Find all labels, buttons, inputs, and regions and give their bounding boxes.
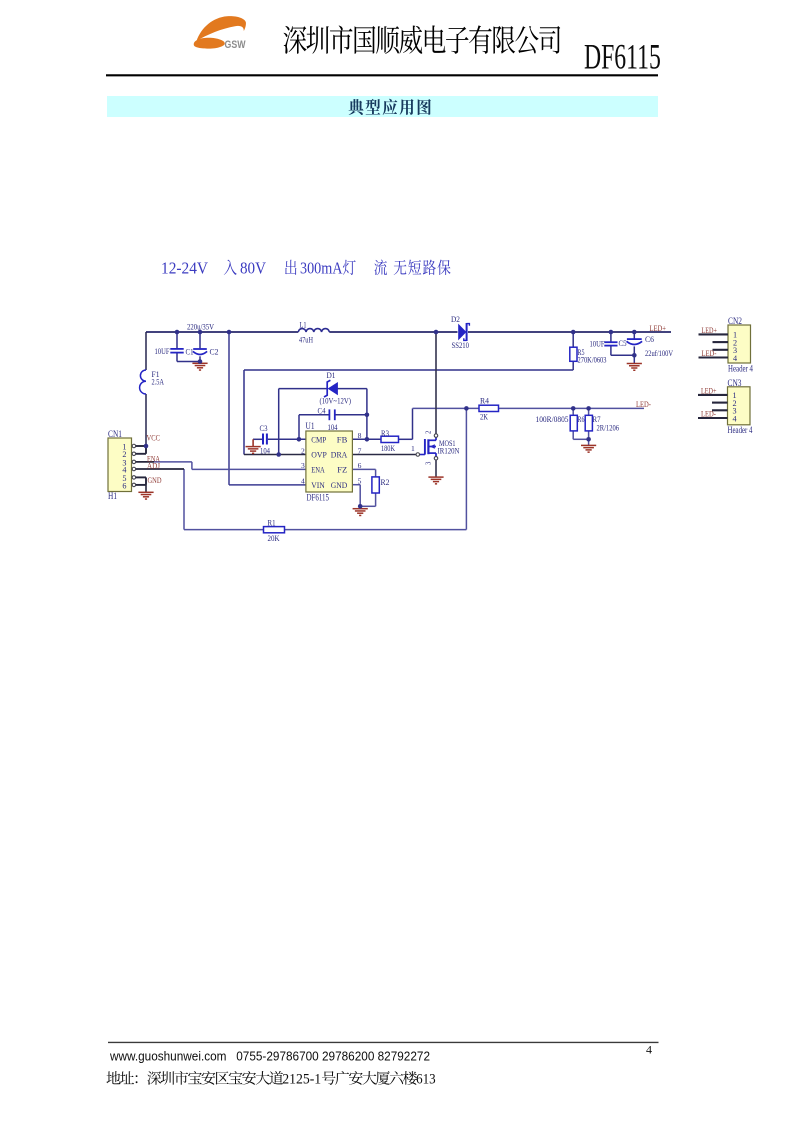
svg-text:OVP: OVP [311,450,327,460]
svg-text:C1: C1 [186,346,194,356]
svg-text:180K: 180K [381,443,396,453]
svg-text:FB: FB [337,434,348,444]
svg-text:ENA: ENA [311,465,325,475]
svg-text:Header 4: Header 4 [728,363,753,373]
svg-text:D2: D2 [451,314,460,324]
svg-text:LED+: LED+ [650,323,667,333]
svg-text:1: 1 [411,444,415,453]
svg-text:LED-: LED- [636,399,651,409]
svg-text:(10V~12V): (10V~12V) [320,395,352,405]
svg-text:3: 3 [426,461,433,465]
svg-text:VIN: VIN [311,480,325,490]
svg-text:47uH: 47uH [299,334,313,344]
svg-text:R1: R1 [268,517,276,527]
svg-text:R2: R2 [381,477,390,487]
svg-text:300mA: 300mA [300,259,343,278]
svg-text:220u/35V: 220u/35V [187,321,215,331]
svg-text:270K/0603: 270K/0603 [578,354,607,364]
svg-text:FZ: FZ [337,465,347,475]
svg-text:R6: R6 [578,414,585,424]
svg-text:20K: 20K [268,533,281,543]
svg-text:4: 4 [646,1043,652,1057]
svg-text:GND: GND [331,480,348,490]
svg-text:H1: H1 [108,491,117,501]
svg-text:10UF: 10UF [155,346,170,356]
svg-text:DF6115: DF6115 [584,37,661,77]
svg-text:VCC: VCC [147,432,161,442]
svg-text:LED-: LED- [702,348,717,358]
svg-text:5: 5 [358,477,362,486]
svg-text:2K: 2K [480,411,489,421]
svg-text:CMP: CMP [311,434,326,444]
svg-text:2R/1206: 2R/1206 [597,422,620,432]
svg-text:10UF: 10UF [590,338,605,348]
svg-text:LED+: LED+ [701,385,717,395]
svg-text:4: 4 [733,354,737,363]
svg-text:6: 6 [358,461,362,470]
svg-text:C5: C5 [619,338,627,348]
svg-text:SS210: SS210 [452,340,470,350]
svg-text:Header 4: Header 4 [728,425,753,435]
svg-text:CN3: CN3 [728,378,742,388]
svg-text:U1: U1 [306,421,315,431]
svg-text:4: 4 [301,477,305,486]
svg-text:CN2: CN2 [728,316,742,326]
svg-text:GSW: GSW [225,39,246,51]
svg-text:R3: R3 [381,428,389,438]
svg-text:IR120N: IR120N [438,445,461,455]
svg-text:C3: C3 [260,423,268,433]
svg-text:2: 2 [301,446,305,455]
svg-text:C4: C4 [318,405,327,415]
svg-text:12-24V: 12-24V [161,259,209,278]
svg-text:2.5A: 2.5A [152,376,165,386]
svg-text:2: 2 [426,430,433,434]
svg-text:7: 7 [358,446,362,455]
svg-text:C2: C2 [210,346,219,356]
svg-text:LED+: LED+ [702,325,718,335]
svg-text:ADJ: ADJ [147,461,161,471]
svg-text:6: 6 [122,481,126,490]
svg-text:4: 4 [733,414,737,423]
svg-text:CN1: CN1 [108,429,122,439]
svg-text:2125-1: 2125-1 [282,1072,321,1088]
svg-text:3: 3 [301,461,305,470]
svg-text:C6: C6 [645,334,655,344]
svg-text:104: 104 [260,445,271,455]
svg-text:R4: R4 [480,395,490,405]
svg-text:LED-: LED- [701,408,716,418]
svg-text:104: 104 [328,422,339,432]
svg-text:613: 613 [416,1072,436,1088]
svg-text:DRA: DRA [331,450,348,460]
svg-text:DF6115: DF6115 [307,493,330,503]
svg-text:100R/0805: 100R/0805 [536,414,569,424]
svg-text:D1: D1 [327,370,336,380]
svg-text:www.guoshunwei.com 0755-2978: www.guoshunwei.com 0755-29786700 2978620… [109,1048,430,1063]
svg-text:GND: GND [148,475,162,485]
svg-text:80V: 80V [240,259,267,278]
svg-text:8: 8 [358,431,362,440]
svg-text:22uf/100V: 22uf/100V [645,348,674,358]
svg-text:L1: L1 [300,319,307,329]
